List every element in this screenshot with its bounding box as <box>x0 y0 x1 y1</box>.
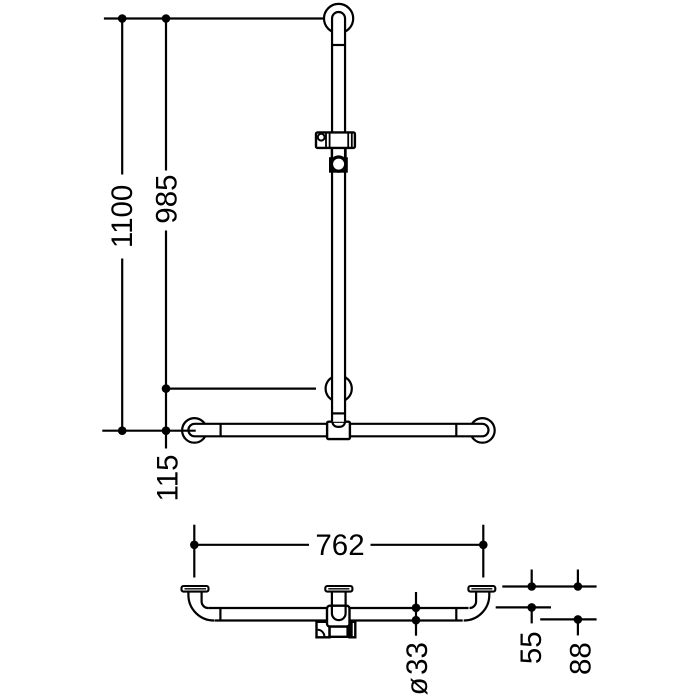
post U-end inside clamp <box>332 605 346 621</box>
svg-text:762: 762 <box>315 529 364 562</box>
1100 extension line <box>121 19 123 175</box>
dot 55 top <box>527 582 536 591</box>
top datum line <box>104 17 324 19</box>
lower wall mount circle (vertical rail bottom rosette) <box>326 376 352 402</box>
holder bracket left wing <box>317 622 330 638</box>
dot 1100 bottom <box>118 426 127 435</box>
rail collar tick near top <box>332 44 345 46</box>
holder ring bracket <box>330 155 347 172</box>
holder middle box <box>330 627 348 637</box>
right elbow inner <box>470 592 477 608</box>
bar top line <box>208 607 468 609</box>
bar joint tick left <box>220 424 222 437</box>
vertical rail (front view) <box>332 12 345 422</box>
rail clamp over bar <box>327 606 350 627</box>
dot 115 <box>162 426 171 435</box>
dot d33 top <box>412 604 421 613</box>
right elbow outer <box>464 592 490 621</box>
right joint tick <box>455 608 457 621</box>
top flange circle (wall rosette, vertical rail top) <box>324 4 353 33</box>
tick 55 top <box>531 570 533 587</box>
center wall plate <box>325 586 352 592</box>
bar joint tick right <box>455 424 457 437</box>
svg-text:88: 88 <box>565 642 598 675</box>
shower holder slider block <box>316 132 355 148</box>
right wall plate <box>468 586 495 592</box>
svg-text:985: 985 <box>150 174 183 223</box>
holder bracket right wing <box>350 622 356 638</box>
left flange circle (horizontal bar left rosette) <box>182 418 207 443</box>
center post <box>331 592 333 606</box>
svg-text:55: 55 <box>515 631 548 664</box>
55 dimension line <box>496 606 551 608</box>
762 right extension tick <box>482 525 484 578</box>
left wall plate <box>182 586 209 592</box>
985 extension line <box>165 19 167 171</box>
slider clip detail <box>318 134 325 141</box>
dot 55 bottom <box>527 603 536 612</box>
right flange circle (horizontal bar right rosette) <box>470 418 495 443</box>
holder arm <box>331 148 333 157</box>
dot 762 right <box>479 541 488 550</box>
dot 88 bottom <box>574 615 583 624</box>
svg-text:ø33: ø33 <box>401 642 434 695</box>
762 left extension tick <box>193 525 195 578</box>
762 dimension line <box>194 544 309 546</box>
svg-text:115: 115 <box>152 454 185 501</box>
horizontal grab bar (front view) <box>188 424 488 437</box>
bar bottom line <box>214 619 462 621</box>
1100 pointer line to bar center <box>102 430 195 432</box>
dot 88 top <box>574 582 583 591</box>
dot d33 bottom <box>412 616 421 625</box>
88 pointer tail <box>577 619 579 635</box>
55 pointer tail <box>531 607 533 623</box>
tick 88 top <box>577 570 579 587</box>
left elbow inner <box>202 592 209 608</box>
svg-text:1100: 1100 <box>106 185 139 248</box>
wall datum line right <box>502 585 596 587</box>
left elbow outer <box>188 592 214 621</box>
88 dimension line <box>540 618 596 620</box>
rail tick above junction <box>332 412 345 414</box>
dot 762 left <box>190 541 199 550</box>
dot 985 bottom <box>162 384 171 393</box>
T junction block <box>327 422 350 439</box>
dot 985 top <box>162 14 171 23</box>
985 pointer line to lower mount <box>166 388 316 390</box>
bracket left arc detail <box>318 630 325 637</box>
left joint tick <box>219 608 221 621</box>
diameter 33 extension line <box>415 592 417 636</box>
dot 1100 top <box>118 14 127 23</box>
rail bottom rounded cap inside junction block <box>332 421 345 427</box>
